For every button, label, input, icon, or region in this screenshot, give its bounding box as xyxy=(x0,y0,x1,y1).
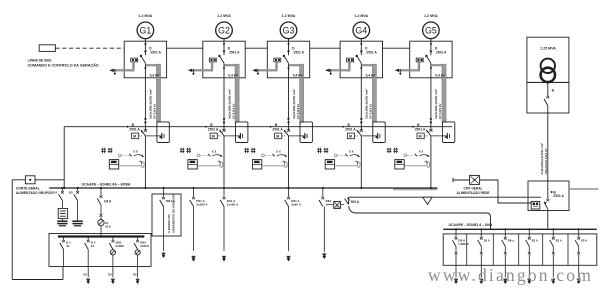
trip unit box G2 xyxy=(209,58,216,62)
svg-text:ALIMENTADO GRUPOS: ALIMENTADO GRUPOS xyxy=(16,191,54,195)
bus junction xyxy=(192,187,194,189)
svg-text:2501 A: 2501 A xyxy=(436,50,447,54)
circuit breaker G1 xyxy=(141,56,146,64)
svg-text:2501 A: 2501 A xyxy=(553,194,564,198)
svg-text:1.2 MVA: 1.2 MVA xyxy=(217,14,231,18)
CT oval G3 xyxy=(285,162,288,168)
bus junction xyxy=(223,187,225,189)
svg-text:63 A: 63 A xyxy=(556,239,563,243)
wire G4 to main bus xyxy=(360,136,362,188)
svg-text:2x63A: 2x63A xyxy=(140,244,150,248)
svg-text:1.25 MVA: 1.25 MVA xyxy=(540,47,556,51)
relay wiring G1 xyxy=(119,165,142,167)
svg-text:M: M xyxy=(349,135,352,139)
svg-text:2501 A: 2501 A xyxy=(208,128,219,132)
svg-text:2501 A: 2501 A xyxy=(129,128,140,132)
wire incomer G1 xyxy=(144,45,146,56)
circuit breaker G3 xyxy=(284,56,289,64)
junction G1 riser xyxy=(144,121,146,123)
CT symbols G2 xyxy=(180,148,182,153)
svg-text:3x(3x240)+(3x120) mm²: 3x(3x240)+(3x120) mm² xyxy=(540,143,544,175)
svg-text:D4 A: D4 A xyxy=(104,200,112,204)
busbar takeoff gray band G3 xyxy=(256,69,278,71)
relay wiring G4 xyxy=(335,165,358,167)
bus junction xyxy=(162,187,164,189)
svg-text:D5: D5 xyxy=(83,272,87,276)
svg-text:D61 A: D61 A xyxy=(291,199,300,203)
svg-text:16 A: 16 A xyxy=(105,225,112,229)
CT oval G4 xyxy=(357,162,360,168)
wire G2 to cubicle xyxy=(223,39,225,45)
svg-text:D6 a: D6 a xyxy=(508,239,515,243)
svg-text:1.2 MVA: 1.2 MVA xyxy=(139,14,153,18)
svg-text:D61: D61 xyxy=(326,199,332,203)
bus feeder D61 at 322.8 xyxy=(322,188,324,197)
trip unit box G4 xyxy=(347,58,354,62)
svg-text:2x185 A: 2x185 A xyxy=(227,203,239,207)
measuring circuit G4 xyxy=(334,154,337,157)
svg-text:3x(3x185)+(3x95) mm²: 3x(3x185)+(3x95) mm² xyxy=(292,89,296,119)
wire incomer G4 xyxy=(360,45,362,56)
cable feeder G4 xyxy=(360,78,362,121)
LV feeder DB1 xyxy=(137,237,139,241)
cell separator xyxy=(466,234,468,265)
busbar takeoff gray band G2 xyxy=(191,69,213,71)
svg-text:COMANDO E CONTROLO DA GERAÇÃO: COMANDO E CONTROLO DA GERAÇÃO xyxy=(28,63,99,68)
svg-text:M: M xyxy=(133,135,136,139)
svg-text:2501 A: 2501 A xyxy=(366,50,377,54)
svg-text:3x(3x185)+(3x95) mm²: 3x(3x185)+(3x95) mm² xyxy=(434,89,438,119)
svg-text:1.2 MVA: 1.2 MVA xyxy=(354,14,368,18)
svg-text:2501 A: 2501 A xyxy=(415,128,426,132)
coil circle xyxy=(98,220,104,226)
takeoff arrow G2 xyxy=(188,69,192,72)
takeoff arrow G1 xyxy=(109,69,113,72)
takeoff arrow G4 xyxy=(325,69,329,72)
cable feeder G3 xyxy=(288,78,290,121)
outgoing feeder 63 A xyxy=(528,228,530,230)
earth branch gray band G5 xyxy=(431,64,445,66)
transformer switch box xyxy=(527,82,569,113)
wire breaker to feeder G3 xyxy=(288,63,290,78)
protection relay G2 xyxy=(188,160,197,169)
svg-text:2501 A: 2501 A xyxy=(272,128,283,132)
bus junction xyxy=(144,187,146,189)
wire G5 to main bus xyxy=(430,136,432,188)
trip unit box G3 xyxy=(274,58,281,62)
svg-text:XV 0,6/1 kV: XV 0,6/1 kV xyxy=(296,104,300,119)
generator G2 xyxy=(216,22,233,39)
svg-text:4x: 4x xyxy=(66,244,70,248)
svg-text:XV 0,6/1 kV: XV 0,6/1 kV xyxy=(231,104,235,119)
svg-text:2501 A: 2501 A xyxy=(150,50,161,54)
svg-text:1.2 MVA: 1.2 MVA xyxy=(424,14,438,18)
bus junction xyxy=(63,187,65,189)
junction G5 riser xyxy=(430,121,432,123)
CT oval G5 xyxy=(427,162,430,168)
svg-text:0,4 kV: 0,4 kV xyxy=(150,73,160,77)
protection relay G1 xyxy=(109,160,118,169)
CT symbols G5 xyxy=(387,148,389,153)
takeoff arrow G5 xyxy=(395,69,399,72)
circuit breaker G5 xyxy=(426,56,431,64)
svg-text:G4: G4 xyxy=(355,25,367,35)
svg-text:63 A: 63 A xyxy=(581,239,588,243)
svg-text:www.diangon.com: www.diangon.com xyxy=(428,265,593,285)
earthing connector G3 xyxy=(289,135,305,137)
svg-text:0,4 kV: 0,4 kV xyxy=(435,73,445,77)
generator G1 xyxy=(137,22,154,39)
cable feeder G5 xyxy=(430,78,432,121)
svg-text:0,4 kV: 0,4 kV xyxy=(366,73,376,77)
relay wiring G5 xyxy=(404,165,427,167)
svg-text:CORTE GERAL: CORTE GERAL xyxy=(16,187,40,191)
trip unit box G1 xyxy=(131,58,138,62)
transformer cable xyxy=(547,113,549,181)
svg-text:D2: D2 xyxy=(69,191,73,195)
junction G2 riser xyxy=(223,121,225,123)
svg-text:1.2 MVA: 1.2 MVA xyxy=(282,14,296,18)
busbar takeoff gray band G5 xyxy=(398,69,420,71)
neutral resistor box xyxy=(58,208,67,218)
bus junction xyxy=(322,187,324,189)
wire section link line xyxy=(64,126,452,128)
earthing switch loop G3 xyxy=(300,122,312,143)
drawout breaker G3 lower xyxy=(287,129,290,132)
svg-text:2x63A: 2x63A xyxy=(116,244,126,248)
svg-text:NSGAFOU 0,6/1 kV: NSGAFOU 0,6/1 kV xyxy=(544,148,548,174)
generator G4 xyxy=(353,22,370,39)
protection relay G5 xyxy=(395,160,404,169)
protection relay G4 xyxy=(325,160,334,169)
svg-text:2501 A: 2501 A xyxy=(294,50,305,54)
LV busbar xyxy=(58,235,144,237)
svg-text:UCA&PE – ED4B1 6A – EPBA: UCA&PE – ED4B1 6A – EPBA xyxy=(82,183,131,187)
cable feeder G1 xyxy=(144,78,146,121)
wire incomer G5 xyxy=(430,45,432,56)
svg-text:D4: D4 xyxy=(53,191,57,195)
wire dashed control bus line xyxy=(55,47,124,49)
wire G3 to cubicle xyxy=(288,39,290,45)
transformer T1 xyxy=(541,59,555,73)
changeover box xyxy=(334,201,341,208)
svg-text:0,4 kV: 0,4 kV xyxy=(293,73,303,77)
protection relay G3 xyxy=(252,160,261,169)
outgoing feeder D6 a xyxy=(504,228,506,230)
shore supply box xyxy=(453,179,470,181)
gray stub right xyxy=(569,188,599,190)
svg-text:0,4 kV: 0,4 kV xyxy=(228,73,238,77)
outgoing feeder 36 A xyxy=(480,228,482,230)
tie disconnector 500A xyxy=(340,204,344,206)
outgoing feeder 63 A xyxy=(578,228,580,230)
measuring circuit G5 xyxy=(404,154,407,157)
wire control link between cubicles xyxy=(167,47,203,49)
svg-text:ALIMENTAÇÃO REDE: ALIMENTAÇÃO REDE xyxy=(456,190,489,195)
junction G4 riser xyxy=(360,121,362,123)
cell separator xyxy=(542,234,544,265)
svg-text:G2: G2 xyxy=(218,25,230,35)
LV feeder D 2 xyxy=(87,237,89,241)
svg-text:XV 0,6/1 kV: XV 0,6/1 kV xyxy=(153,104,157,119)
bus junction xyxy=(360,187,362,189)
wire to LV bus right xyxy=(547,209,549,230)
LV feeder D 1 xyxy=(63,237,65,241)
svg-text:x x: x x xyxy=(276,150,281,154)
earthing connector G2 xyxy=(224,135,240,137)
main bus 0.4kV xyxy=(393,188,437,191)
cell separator xyxy=(518,234,520,265)
earthing switch loop G1 xyxy=(157,122,169,143)
svg-text:500 A: 500 A xyxy=(351,200,360,204)
node legend connector box xyxy=(39,45,55,52)
svg-text:CMT GERAL: CMT GERAL xyxy=(464,186,483,190)
earth branch gray band G3 xyxy=(289,64,303,66)
svg-text:2x185 A: 2x185 A xyxy=(196,203,208,207)
wire incomer G2 xyxy=(223,45,225,56)
svg-text:A BORDO DO: A BORDO DO xyxy=(167,214,171,233)
svg-text:3x(3x185)+(3x95) mm²: 3x(3x185)+(3x95) mm² xyxy=(149,89,153,119)
junction G3 riser xyxy=(287,121,289,123)
svg-text:XV 0,6/1 kV: XV 0,6/1 kV xyxy=(438,104,442,119)
measuring circuit G2 xyxy=(197,154,200,157)
svg-text:XV 0,6/1 kV: XV 0,6/1 kV xyxy=(369,104,373,119)
wire breaker to feeder G5 xyxy=(430,63,432,78)
svg-text:x x: x x xyxy=(133,150,138,154)
cell separator xyxy=(567,234,569,265)
motor operator box G2 xyxy=(210,133,217,139)
svg-text:36 A: 36 A xyxy=(484,239,491,243)
earthing switch loop G4 xyxy=(373,122,385,143)
incomer breaker box right xyxy=(528,181,569,211)
transformer box xyxy=(527,37,569,82)
LV switchboard box xyxy=(49,234,151,267)
neutral link triangle xyxy=(423,197,432,204)
wire breaker to feeder G4 xyxy=(360,63,362,78)
motor operator box G3 xyxy=(275,133,282,139)
svg-text:2501 A: 2501 A xyxy=(345,128,356,132)
earthing connector G5 xyxy=(431,135,447,137)
earthing connector G4 xyxy=(361,135,377,137)
drawout breaker G4 lower xyxy=(360,129,363,132)
generator G3 xyxy=(280,22,297,39)
svg-text:3x(3x185)+(3x95) mm²: 3x(3x185)+(3x95) mm² xyxy=(365,89,369,119)
relay wiring G2 xyxy=(197,165,220,167)
relay wiring G3 xyxy=(262,165,285,167)
CT symbols G1 xyxy=(102,148,104,153)
svg-text:G5: G5 xyxy=(425,25,437,35)
wire incomer G3 xyxy=(288,45,290,56)
CT symbols G4 xyxy=(317,148,319,153)
svg-text:x x: x x xyxy=(212,150,217,154)
earthing connector G1 xyxy=(145,135,161,137)
bus feeder D61 A at 288.5 xyxy=(288,188,290,197)
wire G3 to main bus xyxy=(288,136,290,188)
earth electrode bars 2 xyxy=(72,220,82,222)
feeder DB1 in box xyxy=(163,188,165,197)
svg-text:x x: x x xyxy=(419,150,424,154)
wire shore to breaker xyxy=(480,180,532,203)
bus junction xyxy=(287,187,289,189)
drawout breaker G2 lower xyxy=(222,129,225,132)
svg-text:63 A: 63 A xyxy=(532,239,539,243)
CT oval G1 xyxy=(142,162,145,168)
svg-text:D5: D5 xyxy=(108,272,112,276)
trip unit box G5 xyxy=(416,58,423,62)
wire G1 to cubicle xyxy=(144,39,146,45)
CT symbols G3 xyxy=(245,148,247,153)
wire G1 to main bus xyxy=(144,136,146,188)
svg-text:x x: x x xyxy=(349,150,354,154)
cell separator xyxy=(492,234,494,265)
wire G4 to cubicle xyxy=(360,39,362,45)
earthing switch loop G2 xyxy=(236,122,248,143)
wire breaker to feeder G1 xyxy=(144,63,146,78)
takeoff arrow G3 xyxy=(252,69,256,72)
drawout breaker G5 lower xyxy=(429,129,432,132)
cubicle box G5 xyxy=(410,41,452,78)
shore inverter box xyxy=(152,194,181,236)
busbar takeoff gray band G4 xyxy=(329,69,351,71)
wire left riser xyxy=(63,127,65,188)
cable feeder G2 xyxy=(223,78,225,121)
svg-text:G3: G3 xyxy=(283,25,295,35)
svg-text:3x(3x185)+(3x95) mm²: 3x(3x185)+(3x95) mm² xyxy=(227,89,231,119)
wire breaker to feeder G2 xyxy=(223,63,225,78)
earth electrode bars xyxy=(57,220,67,222)
cubicle box G3 xyxy=(267,41,309,78)
right switchboard box xyxy=(443,234,597,265)
svg-text:M: M xyxy=(419,135,422,139)
wire emergency loop xyxy=(62,267,64,280)
drawout breaker G1 lower xyxy=(144,129,147,132)
circuit breaker G2 xyxy=(219,56,224,64)
busbar takeoff gray band G1 xyxy=(113,69,135,71)
svg-text:M: M xyxy=(212,135,215,139)
svg-text:G1: G1 xyxy=(140,25,152,35)
svg-text:DB1 A: DB1 A xyxy=(166,199,176,203)
svg-text:D61 A: D61 A xyxy=(227,199,236,203)
generator G5 xyxy=(423,22,440,39)
measuring circuit G1 xyxy=(118,154,121,157)
wire G2 to main bus xyxy=(223,136,225,188)
svg-text:D61 A: D61 A xyxy=(196,199,205,203)
svg-text:UCA&PE – ED4B1 6 – B4B: UCA&PE – ED4B1 6 – B4B xyxy=(449,223,493,227)
circuit breaker G4 xyxy=(357,56,362,64)
earth branch gray band G1 xyxy=(146,64,160,66)
CT oval G2 xyxy=(220,162,223,168)
svg-text:2x: 2x xyxy=(91,244,95,248)
svg-text:M: M xyxy=(276,135,279,139)
right bus xyxy=(443,228,597,230)
wire G5 to cubicle xyxy=(430,39,432,45)
svg-text:D5: D5 xyxy=(133,272,137,276)
current transformer box xyxy=(25,176,35,184)
wire tie upper xyxy=(349,197,541,204)
wire tie lower xyxy=(349,206,491,229)
LV feeder DB1 xyxy=(112,237,114,241)
svg-text:2501 A: 2501 A xyxy=(229,50,240,54)
cubicle box G2 xyxy=(203,41,245,78)
contact x xyxy=(100,214,103,217)
earth branch gray band G4 xyxy=(362,64,376,66)
motor operator right xyxy=(531,201,540,209)
outgoing feeder D6 A xyxy=(455,228,457,230)
outgoing feeder 63 A xyxy=(552,228,554,230)
disconnector D4A feeder xyxy=(100,188,102,195)
bus feeder D61 A at 193.5 xyxy=(193,188,195,197)
cubicle box G4 xyxy=(340,41,382,78)
cubicle box G1 xyxy=(124,41,166,78)
measuring circuit G3 xyxy=(262,154,265,157)
motor operator box G4 xyxy=(347,133,354,139)
bus feeder D61 A at 224.0 xyxy=(223,188,225,197)
svg-text:LINHA DE BUS: LINHA DE BUS xyxy=(28,59,53,63)
earth branch gray band G2 xyxy=(224,64,238,66)
motor operator box G1 xyxy=(132,133,139,139)
svg-text:I=BM B: I=BM B xyxy=(458,242,469,246)
earthing switch loop G5 xyxy=(442,122,454,143)
motor operator box G5 xyxy=(417,133,424,139)
svg-text:2x95 A: 2x95 A xyxy=(291,203,301,207)
bus junction xyxy=(430,187,432,189)
